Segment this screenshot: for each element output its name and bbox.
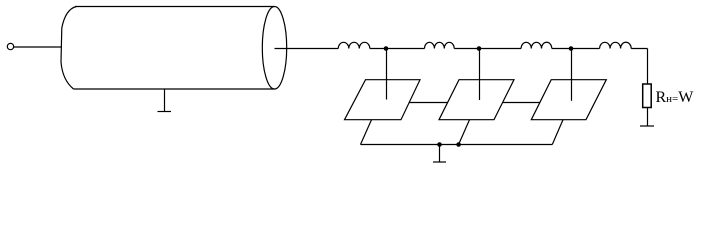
wire down to resistor [647, 49, 649, 85]
wire bottom bus [361, 144, 553, 146]
wire L4 to right corner [631, 48, 647, 50]
wire slant P2 to bottom bus [459, 120, 470, 145]
ground under bus: bar [433, 161, 446, 163]
capacitor plate P1 (parallelogram) [345, 80, 421, 120]
ground under bus: stem [439, 145, 441, 163]
inductor L2 [425, 42, 455, 48]
wire slant P1 to bottom bus [361, 120, 372, 145]
wire stem into plate P2 [479, 49, 481, 101]
inductor L3 [521, 42, 552, 48]
wire L1 to L2 [370, 48, 425, 50]
node junction 2 [477, 46, 482, 51]
ground under tube: stem [164, 89, 166, 112]
node junction 3 [569, 46, 574, 51]
inductor L4 [600, 42, 632, 48]
capacitor plate P2 (parallelogram) [439, 80, 514, 120]
node dot ground junction [437, 142, 442, 147]
label Rн=W [656, 90, 694, 106]
wire L3 to L4 [552, 48, 600, 50]
wire input lead [14, 46, 62, 48]
bottom terminal bar of resistor [640, 125, 654, 127]
resistor Rн (load) [643, 84, 652, 108]
node junction 1 [384, 46, 389, 51]
tube body right end cap ellipse [262, 7, 286, 90]
wire stem into plate P3 [571, 49, 573, 101]
tube body bottom line [74, 88, 275, 90]
wire connector P2-P3 [503, 102, 540, 104]
capacitor plate P3 (parallelogram) [531, 80, 606, 120]
tube body top line [75, 6, 275, 8]
wire resistor to bottom terminal [647, 108, 649, 127]
ground under tube: bar [158, 111, 172, 113]
wire slant P3 to bottom bus [552, 120, 563, 145]
wire from tube center to L1 [275, 48, 339, 50]
tube body (cylinder) left end cap arc [61, 7, 77, 90]
node dot P2 slant junction [456, 142, 461, 147]
input terminal circle [7, 43, 13, 49]
wire connector P1-P2 [409, 102, 448, 104]
wire L2 to L3 [454, 48, 521, 50]
wire stem into plate P1 [386, 49, 388, 100]
inductor L1 [338, 42, 370, 48]
